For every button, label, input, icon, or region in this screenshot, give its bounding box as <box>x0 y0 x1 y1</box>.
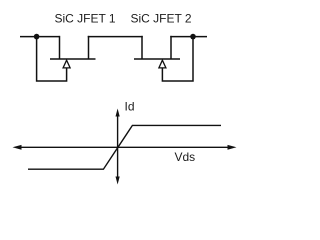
wire left lead <box>20 36 60 38</box>
svg-text:SiC JFET 2: SiC JFET 2 <box>130 12 191 26</box>
transistor Q2 drain lead <box>141 36 143 59</box>
transistor Q2 channel <box>134 58 180 60</box>
transistor Q1 channel <box>50 58 96 60</box>
wire right lead <box>170 36 207 38</box>
wire Q1 gate to node A <box>37 37 67 81</box>
axis Vds (horizontal) <box>18 146 231 148</box>
transistor Q1 drain lead <box>59 36 61 59</box>
node A (gate-source junction JFET 1) <box>34 34 40 40</box>
transistor Q1 gate arrow <box>63 60 70 68</box>
curve Id-Vds characteristic <box>28 125 221 169</box>
node B (gate-source junction JFET 2) <box>190 34 196 40</box>
axis arrow right <box>228 145 237 150</box>
svg-text:Id: Id <box>125 100 135 114</box>
transistor Q2 source lead <box>170 36 172 59</box>
axis arrow bottom <box>116 177 120 185</box>
wire Q2 gate to node B <box>162 37 193 81</box>
axis Id (vertical) <box>117 113 119 180</box>
transistor Q2 gate arrow <box>159 60 166 68</box>
svg-text:Vds: Vds <box>175 150 196 164</box>
svg-text:SiC JFET 1: SiC JFET 1 <box>54 12 115 26</box>
axis arrow left <box>13 145 22 150</box>
transistor Q1 source lead <box>88 36 90 59</box>
axis arrow top <box>116 109 120 117</box>
wire interconnect Q1 source to Q2 drain <box>88 36 143 38</box>
